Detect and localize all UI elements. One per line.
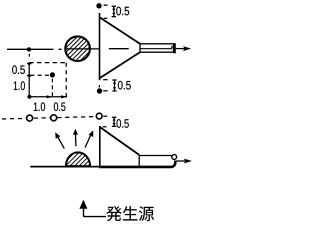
tick dot middle of left dimension line [28, 74, 31, 77]
ground plane line [30, 166, 100, 168]
node: dot below horn [97, 88, 102, 93]
label 0.5 middle [117, 119, 129, 128]
horn bottom flare [100, 52, 141, 78]
label 1.0 below square [34, 102, 45, 111]
dimension arrowhead 0.5 [61, 95, 67, 98]
wire: short dash below dot [28, 54, 30, 57]
node: dot above horn [96, 3, 101, 8]
waveguide end flange [173, 43, 176, 53]
scan square: right dashed edge [65, 63, 67, 99]
dimension I-beam 0.5 middle [112, 117, 116, 126]
radiation arrow right [85, 136, 91, 148]
waveguide end loop [172, 155, 177, 160]
horn top flare [100, 17, 141, 44]
lower horn top flare [100, 127, 139, 155]
scan square: left dimension line with ticks [27, 63, 31, 97]
node: open circle position 1 [27, 115, 33, 121]
radiation arrow middle [75, 134, 77, 146]
label 0.5 left of square [12, 65, 25, 74]
wire: middle dashed measurement line [2, 117, 95, 119]
label 1.0 left of square [14, 81, 25, 90]
dash from top dot [104, 4, 108, 6]
dash from bottom dot [103, 90, 107, 92]
lower waveguide left wall [138, 155, 140, 166]
label 0.5 top [116, 7, 129, 16]
dash right of circle 3 [103, 115, 107, 117]
horn antenna aperture line [99, 13, 101, 80]
wire: axis through source circle to horn aperture [65, 48, 99, 50]
dash stub under aperture [98, 85, 100, 87]
dash from lower horn corner [103, 126, 107, 128]
node: open circle position 3 [96, 113, 102, 119]
node: bottom-left corner dot [27, 95, 31, 99]
dimension arrowhead 1.0 [47, 95, 53, 98]
dashed line to inner dot [31, 74, 50, 76]
dash from horn bottom corner [103, 79, 107, 81]
label 発生源 (noise source) [106, 206, 154, 221]
wire: axis inside waveguide with end hook [140, 46, 172, 49]
node: probe position dot inside square [50, 72, 55, 77]
wire: axis segment inside horn [109, 48, 129, 50]
radiation arrow left [58, 137, 65, 149]
output arrow upper [176, 48, 185, 50]
noise source: hatched circle [65, 36, 90, 61]
dimension I-beam 0.5 bottom [112, 80, 116, 91]
node: open circle position 2 [51, 115, 57, 121]
dashed drop from inner dot [51, 79, 53, 99]
dash from horn top corner [104, 17, 108, 19]
label 0.5 below square [54, 102, 66, 111]
pointer arrow head [79, 200, 87, 209]
wire: upper axis centre line left segment with short dash [7, 48, 62, 50]
scan square: top dashed edge [29, 62, 66, 64]
dimension I-beam 0.5 top [112, 6, 116, 16]
output arrow lower [177, 160, 186, 162]
lower horn aperture line [99, 126, 101, 167]
node: measuring point dot on axis [27, 47, 31, 51]
label 0.5 bottom of horn [118, 81, 131, 90]
tick dot top of left dimension line [28, 62, 31, 65]
horn waveguide body [140, 44, 174, 52]
noise source: hatched half dome on ground [66, 152, 90, 166]
scan square: bottom dimension line [29, 96, 67, 98]
pointer arrow stem and leader line [84, 208, 107, 216]
lower horn waveguide top [139, 155, 172, 157]
lower horn and waveguide bottom baseline [99, 161, 175, 167]
